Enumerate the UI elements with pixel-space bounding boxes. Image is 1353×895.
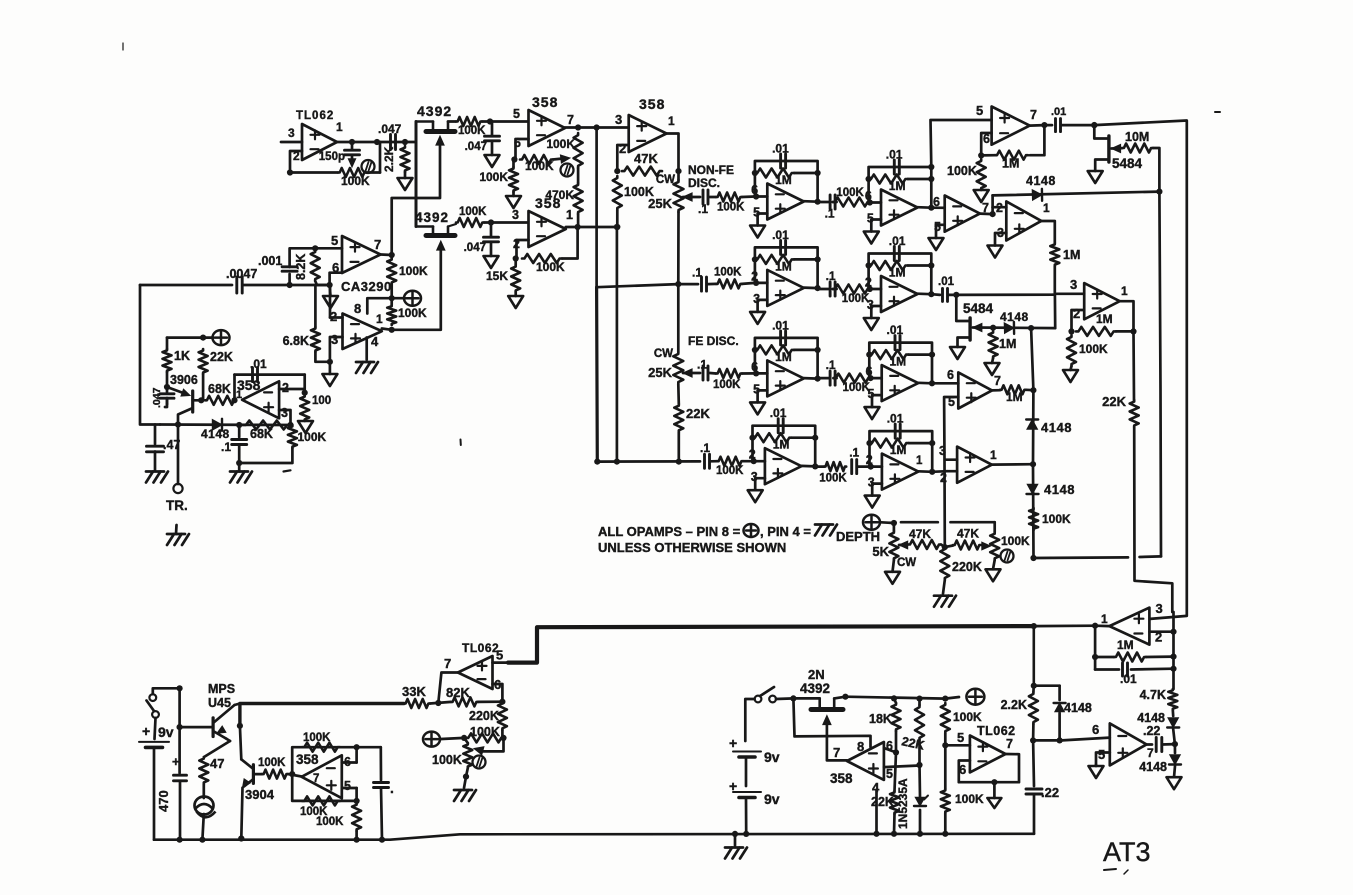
battery BT1 9v [139,718,169,840]
svg-text:100K: 100K [479,170,508,184]
op-amp U14 358 [296,752,342,798]
wiper 100K depth [982,542,991,550]
node U3 fb [513,255,519,261]
node cap .1 bottom [236,460,242,466]
op-amp U15 TL062 [458,641,499,689]
svg-text:8: 8 [857,739,864,754]
ground 100K U6 [298,421,313,433]
pin 1 label UP [1101,612,1108,626]
potentiometer 25K NON-FE [648,171,683,212]
capacitor .0047 [226,267,257,293]
wire Q2 to U3 [484,221,528,224]
wire out U12L [801,465,815,468]
node bus top left [177,685,183,691]
svg-text:25K: 25K [648,365,672,380]
svg-text:7: 7 [374,237,381,252]
node out U12M [929,469,935,475]
wire minus U10F [756,282,767,285]
svg-text:100K: 100K [955,792,984,806]
wire out U10G [918,292,932,295]
node out U11I [815,376,821,382]
label 100K rowF-G [842,293,870,305]
wire trigger line [160,423,291,426]
svg-text:1: 1 [1101,612,1108,626]
wire U3 fb [517,240,529,259]
svg-text:100K: 100K [298,430,327,444]
pin 7 label UK [994,374,1001,388]
svg-text:47: 47 [210,756,224,771]
resistor 100K rowF-G [833,285,870,294]
wire feedback box U11J [869,343,932,384]
resistor 1M line2 [989,331,1017,358]
wire plus U8B [871,220,881,232]
svg-text:100K: 100K [398,306,427,320]
wire t13 pin5 [945,744,970,747]
wire minus U10G [870,288,881,291]
power plus circle mid [966,689,984,705]
svg-text:5: 5 [331,233,338,248]
resistor 100K U3 fb [522,254,565,274]
label DEPTH [836,529,880,544]
node fb pot top [461,735,467,741]
svg-text:.1: .1 [692,266,702,280]
capacitor .1 trig [221,425,247,463]
svg-text:100K: 100K [399,264,428,278]
svg-text:3: 3 [331,332,338,347]
node 82K right [499,699,505,705]
wire bus to P out [1034,624,1095,627]
wire link rowF-G b [833,288,837,291]
pin 2 label UN [940,471,947,485]
ground U12L [748,490,763,502]
resistor 1M U10F [755,255,818,274]
svg-text:68K: 68K [250,427,273,441]
resistor 100K U2 to gnd [479,160,518,193]
svg-text:100K: 100K [947,164,977,178]
svg-text:25K: 25K [648,196,672,211]
ground UQ [1089,765,1104,779]
label 100K rowA-B [836,187,864,199]
resistor 22K right [1102,394,1139,427]
wire row3 link [710,372,716,375]
wire top right corner [1094,121,1187,619]
wire E out [1030,124,1045,127]
svg-text:TL062: TL062 [977,724,1016,738]
resistor 1M D out [1050,243,1080,266]
node diode right [236,422,242,428]
svg-text:1: 1 [916,455,923,467]
note all opamps line1 [598,524,811,539]
node U14 box br [354,798,360,804]
wire out U10F [804,286,818,289]
svg-text:220K: 220K [469,709,499,723]
pin 6 label U11I [751,360,758,374]
wire plus U11I [758,390,768,402]
node out U12L [812,463,818,469]
pin 6 label U14 [344,755,351,769]
svg-text:100K: 100K [953,710,982,724]
node U3 out a [575,224,581,230]
op-amp UQ [1110,723,1147,765]
ground rail mid [725,834,747,859]
svg-text:6: 6 [947,368,954,382]
svg-text:9v: 9v [764,791,780,807]
node Q8 drain [842,694,848,700]
svg-text:.047: .047 [151,387,163,408]
node 100K top t13 [942,696,948,702]
ground .047 Q2 [484,256,499,268]
wire U2 out [565,126,597,129]
wire Q6 col down [240,726,241,760]
node P out [1092,623,1098,629]
resistor 8.2K [294,250,330,285]
pin 1 label U9D [1043,201,1050,215]
wire t13 a [944,733,947,789]
ground U4 input [323,285,338,308]
ground 6.8K [322,362,337,386]
wire minus U8A [756,195,767,198]
node LED rail [199,837,205,843]
resistor 22K a [900,699,925,765]
wire 25K to col [677,212,680,284]
note all opamps line2 [598,540,786,555]
battery BT3 9v [733,791,780,834]
wire U16 out [827,759,847,762]
svg-text:4: 4 [371,334,379,349]
op-amp U12L [765,448,802,484]
op-amp U16 358 left-facing [830,742,884,786]
node fb right U8B [928,176,934,182]
pin 3 label U1 [288,126,295,140]
wire U15 out [438,673,458,704]
pin 2 label U5 [330,309,337,324]
pin 8 label U16 [857,739,864,754]
svg-text:.01: .01 [772,228,789,242]
wire link rowL-M b [858,465,871,468]
wire feedback box U10G [869,254,932,295]
pin 8 label U5 [354,301,361,316]
node row4 b1 [594,459,600,465]
stray pencil mark [1104,869,1128,874]
svg-text:7: 7 [833,745,840,760]
node 1K bottom [164,384,170,390]
pin 3 label U10G [867,298,874,312]
wire 100K U14 rail [355,831,358,840]
op-amp U12M [882,454,919,490]
svg-text:4148: 4148 [201,427,230,441]
transistor Q6 MPSU45 [213,705,234,741]
pin 7 label U16 [833,745,840,760]
resistor 2.2K [382,146,410,172]
svg-text:5: 5 [344,779,351,793]
op-amp U8A [767,184,804,220]
node E fb [978,152,984,158]
svg-text:.01: .01 [770,406,787,420]
wire 22K bus down [1134,427,1172,612]
op-amp U2 358 [529,94,566,146]
svg-text:5: 5 [496,648,503,663]
node row4 b2 [614,459,620,465]
ground 5K [885,560,900,584]
wire .001 up [290,248,342,267]
wire row2 b [708,283,716,286]
wiper 100K fb [474,738,504,755]
node U4 out [389,252,395,258]
svg-text:100K: 100K [836,187,864,199]
wire P out [1095,624,1109,627]
pin 2 label U6 [282,381,289,395]
node 6.8K gnd [327,359,333,365]
ground 220K [934,580,956,607]
node 2.2K top [402,139,408,145]
wire out U11J [918,381,932,384]
svg-text:5: 5 [957,730,964,745]
pin 3 label U7 [615,112,622,127]
node rail gnd [732,831,738,837]
node Q1 rc [487,118,493,124]
wire input long [140,284,232,287]
svg-text:.1: .1 [849,446,859,460]
wire U7 input [597,126,629,129]
svg-text:2: 2 [619,141,626,156]
svg-text:1M: 1M [890,355,907,369]
resistor 100K U14 bottom [300,796,340,818]
svg-text:47K: 47K [634,151,658,166]
node bus tee [1031,623,1037,629]
svg-text:TR.: TR. [166,498,188,513]
node Q3 base [198,397,204,403]
wire hop to right bus [1140,555,1161,558]
svg-text:3: 3 [615,112,622,127]
wire pin8 [367,298,391,313]
wire minus U12M [871,465,882,468]
wire out U11I [804,377,818,380]
wire out U12M [918,470,932,473]
svg-text:5484: 5484 [1112,156,1143,171]
ground 100K H [1063,366,1078,382]
wire U14 fb top [292,747,381,774]
wire U6 pin3 [279,410,290,425]
svg-text:4148: 4148 [1139,760,1167,774]
pin 6 label UK [947,368,954,382]
label 3906 [170,373,198,387]
resistor 10M [1112,130,1154,153]
node 2.2K bottom [1030,737,1036,743]
svg-text:47K: 47K [909,527,931,541]
svg-text:ALL OPAMPS – PIN 8 =: ALL OPAMPS – PIN 8 = [598,524,741,539]
wire U14 pin5 [342,788,357,801]
node 68K right [231,397,237,403]
resistor 100K after Q1 [448,117,486,137]
wire N pin2 [947,470,957,473]
resistor 100K U6 pin2 [300,395,331,421]
op-amp U4 CA3290 upper [341,236,392,294]
resistor 1M K out [992,385,1026,404]
node 22Ka top [916,696,922,702]
node cap rail [379,837,385,843]
op-amp U9D [1006,201,1041,240]
wire 2.2K bottom [1032,724,1035,740]
ground Q5 [950,347,965,359]
wire Q6 collector thick [235,704,405,726]
wire U1 feedback box [290,142,380,173]
pin 7 label U9C [982,201,989,215]
wire bus to JFET switches [415,122,418,227]
svg-text:5: 5 [513,107,520,121]
resistor 1K [163,338,190,387]
diode D6 4148 [1137,710,1179,728]
svg-text:NON-FE: NON-FE [688,163,734,177]
pin 5 label U11I [753,382,760,396]
wire Q8 src rail [793,697,845,699]
pin 6 label U13 [959,762,966,777]
wire K to col [1026,388,1033,391]
op-amp U5 CA3290 lower [343,314,382,350]
wire row1 to A [742,195,755,198]
wiper 25K FE [683,369,700,377]
ground U11I [750,402,765,414]
svg-text:.1: .1 [826,269,836,283]
svg-text:.01: .01 [886,148,903,162]
pin 3 label U5 [331,332,338,347]
wire P minus in [1149,630,1173,633]
wire minus U11I [756,372,767,375]
svg-text:, PIN 4 =: , PIN 4 = [760,524,811,539]
wire J out to K [932,382,958,385]
wire 33K-82K [430,702,451,704]
wire U7 out [667,134,679,172]
pin 5 label U9C [934,220,941,234]
svg-text:100K: 100K [458,125,486,137]
pin 2 label U3 [513,237,520,251]
pin 1 label UN [990,448,997,462]
wire pin4 gnd [365,338,368,360]
wire t13 bottom [944,813,947,834]
svg-text:TL062: TL062 [462,641,499,655]
wire D plus gnd [995,233,1006,246]
label + batt3 [729,778,737,794]
pin 2 label UH [1073,306,1080,321]
trimmer arrow 150p to pot [348,155,355,167]
ground Q4 [1088,171,1103,183]
wire plus U10F [758,300,768,312]
svg-text:100K: 100K [303,732,331,744]
svg-text:.01: .01 [1051,106,1066,118]
node 5484 drain [1091,122,1097,128]
node U1 out 2 [374,139,380,145]
node out U8B [928,205,934,211]
transistor Q7 3904 [241,759,274,838]
wire Q plus gnd [1096,753,1110,765]
resistor 220K fb [469,702,507,738]
power plus circle depth [863,515,894,530]
wire Q7 link [288,774,302,776]
resistor 15K [486,259,520,293]
svg-text:.1: .1 [700,441,710,455]
resistor 470K [545,168,582,227]
resistor 100K H [1067,335,1108,366]
resistor 22K FE [674,384,710,462]
node rail 2.2K [1031,683,1037,689]
resistor 68K base [205,382,236,405]
node U6 pin3 [287,422,293,428]
wire depth jog [941,545,945,548]
node H out [1130,328,1136,334]
node K col [1030,387,1036,393]
svg-text:4148: 4148 [1044,482,1075,497]
resistor 100K t13 a [941,703,982,733]
label + batt2 [729,735,737,751]
capacitor .47 [147,425,181,471]
resistor 1M P [1095,638,1173,662]
label TR. [166,498,188,513]
power plus circle input [203,330,229,345]
svg-text:7: 7 [1030,108,1037,122]
svg-text:6: 6 [1092,722,1099,737]
wire D out [1041,221,1055,243]
node Q out [1172,741,1178,747]
pin 6 label U4 [332,260,339,275]
svg-text:8: 8 [354,301,361,316]
node U14 out [289,771,295,777]
svg-text:4392: 4392 [415,210,449,225]
node vref mid [389,295,395,301]
capacitor .001 [258,254,297,285]
ground pin4 U5 [356,362,378,373]
wire 4148 line2 [973,326,1055,329]
wire link rowI-J b [834,377,837,380]
svg-text:.047: .047 [464,242,486,254]
svg-text:.047: .047 [465,141,487,153]
ground 100K depth [986,560,1001,581]
stray tick mid [460,440,462,446]
pin 3 label U9D [997,226,1004,240]
trimpot circle fb [473,756,486,769]
node input U8A [753,193,759,199]
svg-text:100K: 100K [1042,512,1071,526]
node 22K b rail [891,831,897,837]
resistor 1M U11J [869,350,932,369]
switch S1 [147,694,159,718]
ground 15K [508,292,523,308]
node fb left U10F [752,256,758,262]
capacitor .01 U11J [887,323,904,350]
wire plus U8A [758,214,768,226]
terminal TR circle [173,484,182,493]
node H fb [1068,328,1074,334]
node 22K top [200,335,206,341]
svg-text:358: 358 [830,771,853,786]
ground D7 [1167,766,1182,789]
svg-text:.22: .22 [1041,785,1059,800]
pin 6 label U2 [514,136,521,150]
node U5 out [389,327,395,333]
wire C out [980,212,993,215]
svg-text:7: 7 [1006,737,1013,751]
op-amp U11J [882,365,919,401]
wire P fb left [1094,626,1097,670]
wire M out to N [932,470,947,473]
svg-text:4.7K: 4.7K [1140,688,1166,702]
capacitor .01 U12L [770,406,787,433]
node P minus [1170,629,1176,635]
resistor 100K U5 out [387,305,427,325]
wire U6 pin2 [279,375,305,393]
wire 10M to bus [1153,148,1159,192]
svg-text:1M: 1M [1063,248,1080,262]
node bus 4148 line1 [1156,189,1162,195]
capacitor .047 coupling [378,122,402,150]
